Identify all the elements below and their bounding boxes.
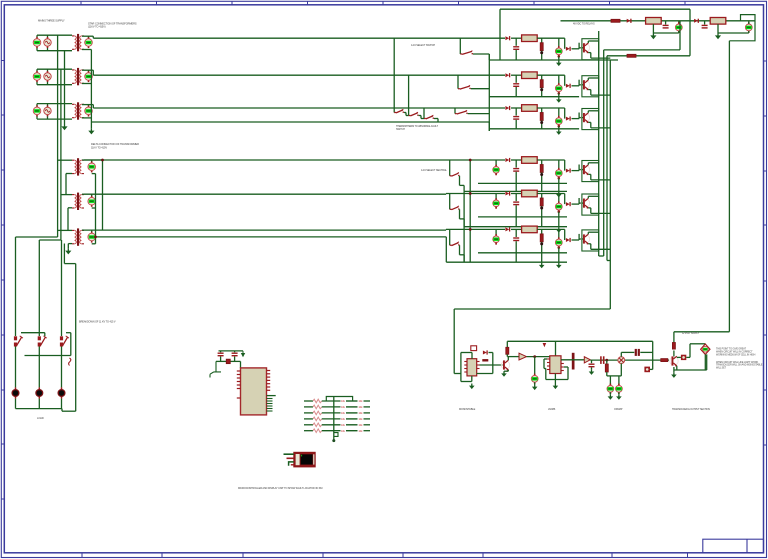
wire row2 meter lower	[558, 93, 560, 96]
wire row4 emitter	[588, 173, 591, 175]
transistor Q4	[581, 165, 589, 175]
wire 12V drop to row1	[499, 9, 501, 60]
wire relay common down	[609, 308, 611, 310]
wire row2 collector loop	[582, 76, 599, 97]
mono timing capacitor	[482, 359, 488, 361]
junction row6 meter bottom	[558, 246, 561, 249]
ground RL8	[715, 33, 721, 39]
relay current meter row2	[555, 83, 562, 93]
wire row5 base lead	[579, 202, 583, 204]
svg-text:TRANSDUCER & OUTPUT SECTION: TRANSDUCER & OUTPUT SECTION	[672, 408, 710, 411]
wire rnet row3 mid2	[346, 412, 358, 414]
ground 555	[469, 384, 475, 390]
wire delta secondary bottoms vertical	[95, 174, 97, 244]
relay RL8 48V	[710, 18, 726, 25]
ground RL7	[650, 33, 656, 39]
wire crystal cap1 v	[220, 351, 222, 352]
wire star neutral feeder	[91, 121, 489, 123]
wire osc to chip	[240, 361, 242, 368]
breaker contact 3	[60, 336, 69, 347]
relay coil RL3	[522, 105, 538, 112]
wire lamp3 out	[61, 399, 63, 409]
wire crystal cap2 lower	[234, 357, 236, 362]
ground signal cap	[589, 369, 595, 375]
wire mono left loop	[460, 353, 462, 382]
wire row3 bottom rail	[489, 128, 579, 130]
resistor 48V rail	[611, 19, 620, 22]
wire row2 resistor lower	[541, 88, 543, 97]
wire thermal link 1b	[405, 113, 407, 116]
ground Q8	[671, 372, 677, 378]
wire row1 emitter	[588, 52, 591, 54]
wire row6 resistor stub	[541, 229, 543, 234]
resistor row2	[540, 80, 543, 88]
wire lamp1 out	[15, 399, 17, 409]
output diode beige	[584, 357, 590, 363]
wire feeder phase A to row1 cont	[511, 37, 522, 39]
wire source V3 top stub	[36, 104, 38, 106]
wire star row1 meter top stub	[88, 36, 90, 37]
relay coil RL6	[522, 226, 538, 233]
lamp L2	[36, 387, 43, 398]
wire mid loop horizontal	[454, 308, 610, 310]
wire row2 base rect left	[564, 75, 566, 86]
wire bus collector D	[609, 60, 611, 309]
junction row5 resistor	[540, 207, 543, 210]
wire delta row3 secondary bottom	[92, 243, 96, 245]
wire lamp2 out	[38, 399, 40, 409]
wire RL8 bottom pin	[717, 24, 719, 33]
wire source V3 bottom stub	[36, 116, 38, 119]
wire feeder phase B to row2	[93, 74, 505, 76]
wire Q8 emitter	[676, 366, 678, 370]
LCD pin wire 2	[287, 457, 294, 459]
wire bus collector B	[603, 50, 605, 256]
wire RL7 gnd link	[653, 32, 678, 34]
ammeter delta row3	[88, 231, 96, 242]
base diode row2	[566, 84, 570, 88]
wire feeder delta2 to row5	[84, 193, 446, 195]
wire rnet row6 left	[304, 430, 313, 432]
ground star primary neutral	[61, 124, 67, 130]
wire rnet row2 mid2	[346, 406, 358, 408]
relay current meter row5	[555, 201, 562, 211]
wire feeder delta1 to row4	[84, 159, 505, 161]
wire meters link	[607, 375, 622, 377]
microcontroller chip body U1	[241, 368, 267, 415]
LM386 right pins	[561, 364, 564, 371]
wire rnet row6 right	[364, 430, 371, 432]
wire bus collector C	[606, 56, 608, 261]
wire row2 past coil	[537, 74, 565, 76]
wire star row1 secondary bottom	[82, 49, 91, 51]
wire row4 past coil	[537, 159, 565, 161]
LM386 left pins	[547, 359, 550, 370]
svg-text:WILL SET: WILL SET	[716, 366, 727, 369]
wire meter mono drop	[534, 357, 536, 376]
svg-text:OPAMP: OPAMP	[614, 408, 623, 411]
wire star row2 primary top	[37, 68, 72, 70]
wire source V2 bottom stub	[36, 82, 38, 85]
junction row3 resistor	[540, 121, 543, 124]
crystal capacitor C1	[218, 353, 224, 356]
wire mono res lower	[506, 354, 508, 356]
ground row3 meter	[556, 129, 562, 135]
ground row1 meter	[556, 61, 562, 67]
junction row6 sense	[469, 228, 472, 231]
wire thermal link 1	[404, 112, 406, 114]
wire row3 base rect h	[572, 118, 580, 120]
wire row4 flyback stub	[515, 160, 517, 168]
wire row3 meter lower	[558, 126, 560, 129]
wire lamp rail to return	[62, 410, 76, 412]
capacitor to gnd	[589, 364, 595, 367]
junction row4 meter bottom	[558, 177, 561, 180]
micro right pins green	[267, 399, 273, 412]
wire star row1 primary top	[37, 34, 72, 36]
wire row2 bottom rail	[489, 96, 579, 98]
wire row5 past coil	[537, 193, 565, 195]
wire row5 switch drop	[449, 194, 451, 210]
svg-text:WORKING MEDIUM OF CELL IN HIGH: WORKING MEDIUM OF CELL IN HIGH	[716, 353, 756, 356]
coupling capacitor C5	[572, 353, 575, 370]
wire thermal out corner	[437, 119, 439, 123]
wire delta neutral feeder	[96, 236, 447, 238]
wire source AC1 top stub	[47, 35, 49, 37]
diode D4 row4	[505, 158, 509, 162]
relay coil RL2	[522, 72, 538, 79]
wire row1 resistor lower	[541, 51, 543, 60]
wire row5 collector loop	[582, 194, 599, 215]
wire thermal drop row1	[393, 38, 395, 112]
transformer TR6 (delta 3)	[72, 228, 84, 245]
wire row1 flyback stub	[515, 38, 517, 46]
wire Q7 emitter	[507, 370, 509, 371]
wire micro port out	[267, 395, 276, 397]
wire cap1 stub	[665, 21, 667, 25]
wire row3 base rect v	[578, 113, 580, 119]
wire thermal drop row3	[423, 108, 425, 119]
svg-text:SWITCH: SWITCH	[396, 128, 405, 131]
junction row5 meter bottom	[558, 210, 561, 213]
output relay diamond	[701, 344, 710, 354]
wire rnet row2 left	[304, 406, 313, 408]
wire relay loop bottom	[674, 369, 707, 371]
wire lm386 top rail	[507, 340, 652, 342]
wire row6 meter stub	[558, 229, 560, 238]
svg-text:BREAKDOWN OF 11 KV TO 415 V: BREAKDOWN OF 11 KV TO 415 V	[79, 321, 116, 324]
AC source VS3	[44, 105, 51, 116]
wire row1 base lead	[579, 47, 583, 49]
series capacitor plates	[601, 356, 604, 364]
wire lamp2 feed	[38, 347, 40, 388]
svg-text:MICROCONTROLLER AND DISPLAY UN: MICROCONTROLLER AND DISPLAY UNIT TO SHOW…	[238, 487, 322, 490]
wire signal chain	[590, 359, 669, 361]
wire row1 collector loop	[582, 39, 599, 60]
diode 48V B	[694, 19, 698, 23]
wire row2 collector	[587, 78, 589, 80]
wire rnet row5 mid	[322, 424, 341, 426]
breaker trip coil curl	[69, 358, 71, 366]
AC source VS2	[44, 71, 51, 82]
svg-text:11KV TO 415V: 11KV TO 415V	[91, 145, 107, 149]
wire row4 meter stub	[558, 160, 560, 169]
ammeter star row1	[85, 37, 93, 48]
wire buffer out	[527, 356, 550, 358]
wire bus bottom link2	[607, 260, 610, 262]
wire delta row3 secondary top	[82, 229, 84, 231]
wire thermal drop row2	[408, 75, 410, 115]
svg-text:12 VOLT SUPPLY: 12 VOLT SUPPLY	[682, 333, 700, 335]
wire lamp common rail	[16, 408, 63, 410]
wire meterA lower	[609, 392, 611, 394]
lamp L1	[12, 387, 19, 398]
wire meterB lower	[618, 392, 620, 394]
ground row4 meter	[556, 192, 562, 198]
electrolytic cap plates	[636, 349, 639, 356]
output relay meter	[702, 346, 708, 352]
resistor signal	[605, 364, 608, 372]
wire res branch lower	[606, 372, 608, 376]
wire meter8 top	[748, 21, 750, 24]
wire delta primary top t3	[58, 229, 72, 231]
wire feeder phase C to row3	[93, 107, 505, 109]
wire rnet row3 left	[304, 412, 313, 414]
555 chip body U2	[467, 359, 477, 376]
LM386 chip body U3	[550, 356, 561, 374]
junction delta secondary t1	[101, 159, 104, 162]
crystal circuit wires	[210, 361, 221, 377]
junction row3 meter bottom	[558, 125, 561, 128]
resistor row1	[540, 43, 543, 51]
wire row5 base rect v	[578, 198, 580, 204]
wire meter7 stub	[678, 21, 680, 24]
relay current meter row1	[555, 46, 562, 56]
wire row5 meter lower	[558, 212, 560, 227]
wire 12V top rail	[500, 8, 690, 10]
flyback capacitor row4	[513, 169, 519, 172]
wire source V2 top stub	[36, 69, 38, 71]
wire star primary neutral vertical	[64, 51, 66, 125]
ground row6 resistor chain	[539, 263, 545, 269]
LCD pin wire 1	[284, 453, 294, 455]
wire rnet row1 mid2	[346, 400, 358, 402]
wire row6 switch out	[459, 245, 461, 255]
switch row2 select	[458, 85, 471, 89]
wire row2 flyback stub	[515, 75, 517, 83]
wire row1 switch out	[473, 53, 489, 55]
junction row2 meter bottom	[558, 92, 561, 95]
flyback capacitor row2	[513, 84, 519, 87]
wire mono right loop	[480, 364, 503, 366]
svg-text:4-16 SELECT SWITCH: 4-16 SELECT SWITCH	[411, 44, 435, 47]
transformer TR1 (star)	[72, 34, 84, 51]
wire row6 flyback lower	[515, 241, 517, 262]
wire star row1 secondary top	[82, 35, 93, 37]
wire crystal top	[219, 350, 244, 352]
wire load phase A drop	[15, 237, 17, 336]
wire feeder row6 jog	[445, 228, 447, 231]
wire row3 meter stub	[558, 108, 560, 117]
wire row2 flyback lower	[515, 87, 517, 97]
flyback capacitor row1	[513, 47, 519, 50]
wire rnet row6 mid2	[346, 430, 358, 432]
wire Q7 collector	[507, 357, 509, 361]
wire lm386 gnd pin	[554, 374, 556, 384]
wire LED right	[686, 356, 690, 358]
wire row6 past coil	[537, 228, 565, 230]
wire row5 flyback stub	[515, 194, 517, 202]
wire meterA drop	[609, 376, 611, 385]
row4 phase meter bottom pin	[495, 173, 497, 175]
wire mono input	[454, 373, 461, 375]
wire source AC3 top stub	[47, 104, 49, 106]
resistor row6	[540, 234, 543, 242]
wire row5 base rect left	[564, 194, 566, 205]
wire row6 base rect h	[572, 239, 580, 241]
resistor RN4	[313, 417, 322, 421]
wire breaker aux tap	[66, 332, 71, 334]
transformer TR3 (star)	[72, 102, 84, 119]
ground delta primary	[65, 248, 71, 254]
wire star row3 secondary bottom	[82, 117, 91, 119]
wire delta row2 secondary bottom	[92, 207, 96, 209]
svg-text:(11KV TO 415V): (11KV TO 415V)	[88, 25, 106, 29]
wire row4 resistor lower	[541, 173, 543, 192]
thermal switch 3	[424, 115, 434, 119]
wire row4 switch out	[459, 176, 461, 186]
wire row3 switch drop	[454, 108, 456, 114]
note text block right	[716, 348, 763, 370]
ground meter A	[608, 394, 614, 400]
transformer TR4 (delta 1)	[72, 158, 84, 175]
junction row2 resistor	[540, 88, 543, 91]
voltmeter source V1	[33, 37, 41, 48]
wire meterB drop	[618, 376, 620, 385]
ground meter mono	[532, 385, 538, 391]
wire row3 switch out	[468, 113, 490, 115]
wire feeder delta2 to row5 cont	[511, 193, 522, 195]
transistor Q2	[581, 80, 589, 90]
flyback capacitor row6	[513, 238, 519, 241]
switch row1 select	[460, 51, 473, 55]
wire cap gnd lower	[591, 368, 593, 370]
flyback capacitor row5	[513, 202, 519, 205]
ground row5 meter	[556, 227, 562, 233]
wire row1 flyback lower	[515, 50, 517, 60]
resistor row3	[540, 113, 543, 121]
wire rnet top loop	[326, 397, 352, 402]
diode D6 row6	[505, 227, 509, 231]
base diode row5	[566, 202, 570, 206]
wire row2 meter stub	[558, 75, 560, 84]
wire delta row1 secondary bottom	[92, 173, 96, 175]
wire row5 collector	[587, 196, 589, 198]
base diode row4	[566, 169, 570, 173]
wire row4 phase meter stub	[495, 160, 497, 166]
ground row2 meter	[556, 97, 562, 103]
wire row4 emitter rail	[591, 179, 611, 181]
wire source AC2 top stub	[47, 69, 49, 71]
wire row3 resistor lower	[541, 121, 543, 129]
wire crystal cap1 lower	[220, 357, 222, 362]
wire rows4-6 sense bus	[469, 160, 471, 262]
wire delta row2 meter top stub	[91, 194, 93, 196]
wire lm386 left loop	[544, 358, 547, 360]
wire mono top right	[489, 352, 493, 354]
wire load return vertical	[75, 264, 77, 412]
wire 48V drop	[679, 21, 681, 50]
AC source VS1	[44, 37, 51, 48]
transistor Q1	[581, 43, 589, 53]
wire feeder delta1 to row4 cont	[511, 159, 522, 161]
border zone ticks bottom	[82, 553, 483, 558]
resistor collector return	[627, 54, 636, 57]
border zone ticks left	[1, 61, 4, 500]
diode D1 row1	[505, 36, 509, 40]
wire rnet row5 left	[304, 424, 313, 426]
ground LM386	[553, 384, 559, 390]
wire thermal link 2b	[420, 116, 422, 119]
transducer element	[618, 357, 625, 364]
wire mono output	[507, 356, 519, 358]
wire star row2 primary bottom	[37, 84, 72, 86]
wire row2 switch drop	[457, 75, 459, 89]
svg-text:LM386: LM386	[548, 408, 556, 411]
wire res branch stub	[606, 360, 608, 364]
wire lm386 out	[561, 359, 584, 361]
wire row5 meter stub	[558, 194, 560, 203]
wire delta primary top t2	[61, 194, 72, 196]
wire row6 switch drop	[449, 229, 451, 245]
title block	[612, 539, 764, 557]
wire row4 bottom rail	[464, 190, 567, 192]
ammeter star row3	[85, 105, 93, 116]
svg-text:LOAD: LOAD	[37, 416, 44, 420]
switch row3 select	[455, 110, 468, 114]
wire row1 collector	[587, 41, 589, 43]
wire rnet row4 mid	[322, 418, 341, 420]
wire feeder delta3 to row6	[84, 229, 446, 231]
wire row2 base rect v	[578, 80, 580, 86]
wire RL8 gnd link	[718, 32, 749, 34]
LCD pin wire 3	[289, 462, 294, 466]
border zone ticks top	[81, 1, 685, 5]
base diode row1	[566, 47, 570, 51]
transistor Q8 output	[670, 356, 678, 366]
wire row1 past coil	[537, 37, 565, 39]
wire delta primary bottom t2	[68, 207, 72, 209]
junction buffer out	[533, 355, 536, 358]
wire rnet row4 mid2	[346, 418, 358, 420]
wire row4 resistor stub	[541, 160, 543, 165]
wire monostable feed vertical	[453, 309, 455, 374]
wire output res drop	[673, 332, 675, 343]
capacitor 48V B	[702, 25, 708, 28]
wire feeder delta3 to row6 cont	[511, 228, 522, 230]
row6 phase meter bottom pin	[495, 243, 497, 245]
wire row5 resistor lower	[541, 206, 543, 227]
wire star row1 secondary step	[92, 36, 94, 38]
wire rnet row1 mid	[322, 400, 341, 402]
junction row1 resistor	[540, 51, 543, 54]
wire row1 base rect v	[578, 43, 580, 49]
svg-text:MONOSTABLE: MONOSTABLE	[459, 408, 476, 411]
ground Q7	[501, 371, 507, 377]
wire row1 meter stub	[558, 38, 560, 47]
wire row6 flyback stub	[515, 229, 517, 237]
junction rnet bus end	[332, 439, 335, 442]
